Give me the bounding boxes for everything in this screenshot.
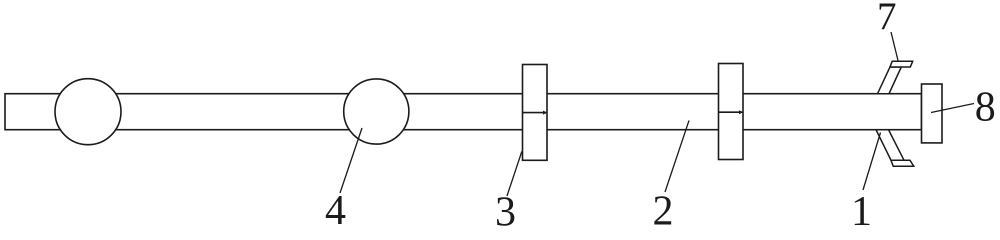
svg-text:8: 8 (975, 84, 996, 130)
svg-text:1: 1 (851, 189, 872, 230)
leader line 8 (931, 104, 974, 113)
roller ball left (55, 79, 121, 145)
collar right body (719, 64, 744, 160)
leader line 4 (340, 128, 362, 193)
leader line 1 (863, 133, 881, 191)
collar 3 divider line (523, 112, 548, 114)
fin flange 1 bottom (891, 160, 914, 166)
end cap 8 (922, 84, 943, 143)
svg-text:7: 7 (877, 0, 897, 38)
collar 3 body (523, 65, 548, 161)
collar right divider arrowhead (739, 110, 743, 114)
leader line 3 (507, 152, 522, 197)
svg-text:3: 3 (495, 189, 516, 230)
leader line 7 (891, 32, 898, 61)
fin blade 7 top (878, 67, 902, 94)
svg-text:4: 4 (325, 188, 346, 230)
svg-text:2: 2 (653, 189, 674, 230)
shaft body 2 (5, 94, 922, 130)
collar right divider line (719, 111, 744, 113)
collar 3 divider arrowhead (543, 111, 547, 115)
fin blade 1 bottom (876, 130, 904, 161)
leader line 2 (665, 121, 689, 193)
roller ball 4 (344, 79, 409, 144)
fin flange 7 top (890, 61, 913, 67)
